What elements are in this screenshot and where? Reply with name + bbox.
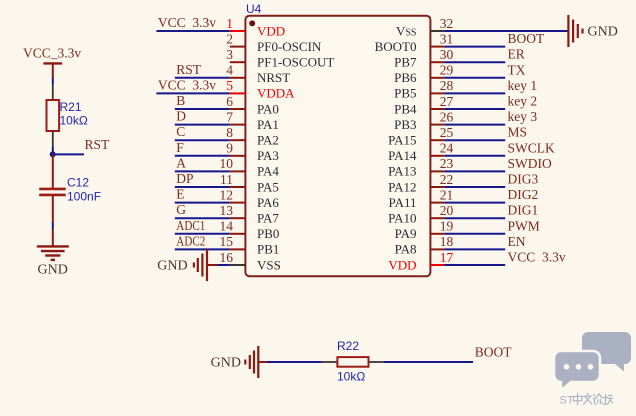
svg-text:24: 24 bbox=[440, 141, 454, 156]
svg-text:VCC_3.3v: VCC_3.3v bbox=[23, 46, 81, 61]
resistor R21 bbox=[47, 100, 88, 131]
wire net TX pin 29 bbox=[444, 62, 525, 78]
wire C12 to GND bbox=[52, 196, 54, 246]
svg-text:1: 1 bbox=[226, 16, 233, 31]
svg-text:TX: TX bbox=[508, 62, 526, 77]
svg-text:PA4: PA4 bbox=[257, 164, 279, 179]
capacitor C12 bbox=[39, 176, 101, 204]
svg-text:R22: R22 bbox=[337, 339, 359, 353]
svg-text:MS: MS bbox=[508, 125, 528, 140]
wire net key 2 pin 27 bbox=[444, 94, 537, 110]
svg-text:VCC 3.3v: VCC 3.3v bbox=[508, 250, 566, 265]
pin 23 (PA13) right stub + number bbox=[388, 156, 453, 179]
wire GND to pin 16 bbox=[207, 264, 230, 266]
pin 25 (PA15) right stub + number bbox=[388, 125, 453, 148]
svg-text:14: 14 bbox=[220, 219, 234, 234]
svg-text:PB3: PB3 bbox=[394, 117, 416, 132]
svg-text:PA11: PA11 bbox=[389, 195, 417, 210]
pin 11 (PA5) left stub + number bbox=[220, 172, 279, 195]
wire net PWM pin 19 bbox=[444, 218, 539, 234]
svg-text:29: 29 bbox=[440, 63, 454, 78]
svg-text:BOOT: BOOT bbox=[475, 345, 513, 360]
pin 10 (PA4) left stub + number bbox=[220, 156, 280, 179]
pin 18 (PA8) right stub + number bbox=[395, 234, 454, 257]
svg-text:key 1: key 1 bbox=[508, 78, 538, 93]
svg-text:DIG1: DIG1 bbox=[508, 203, 539, 218]
svg-text:PF0-OSCIN: PF0-OSCIN bbox=[257, 39, 322, 54]
svg-text:PB7: PB7 bbox=[394, 55, 417, 70]
svg-text:D: D bbox=[176, 109, 186, 124]
svg-text:B: B bbox=[176, 93, 185, 108]
svg-text:DP: DP bbox=[176, 171, 193, 186]
svg-text:key 2: key 2 bbox=[508, 94, 538, 109]
pin 27 (PB4) right stub + number bbox=[394, 94, 453, 117]
ground GND top right bbox=[568, 15, 617, 47]
pin 22 (PA12) right stub + number bbox=[388, 172, 453, 195]
svg-text:ER: ER bbox=[508, 47, 525, 62]
pin 26 (PB3) right stub + number bbox=[394, 109, 453, 131]
wire R22 to BOOT bbox=[369, 345, 513, 363]
wire net B pin 6 bbox=[175, 93, 230, 109]
svg-text:SWCLK: SWCLK bbox=[508, 140, 556, 155]
svg-text:13: 13 bbox=[220, 203, 234, 218]
wire net SWCLK pin 24 bbox=[444, 140, 555, 156]
svg-text:15: 15 bbox=[220, 234, 234, 249]
pin 12 (PA6) left stub + number bbox=[220, 187, 280, 210]
node RST junction bbox=[50, 151, 56, 157]
svg-text:DIG3: DIG3 bbox=[508, 172, 539, 187]
pin 19 (PA9) right stub + number bbox=[395, 219, 454, 242]
wire net MS pin 25 bbox=[444, 125, 527, 141]
svg-text:C: C bbox=[176, 124, 185, 139]
svg-text:100nF: 100nF bbox=[67, 190, 101, 204]
svg-text:G: G bbox=[176, 202, 186, 217]
wire junction to C12 bbox=[52, 154, 54, 188]
svg-text:VCC 3.3v: VCC 3.3v bbox=[158, 15, 216, 30]
svg-text:10: 10 bbox=[220, 156, 234, 171]
svg-text:32: 32 bbox=[440, 16, 454, 31]
svg-text:3: 3 bbox=[226, 47, 233, 62]
svg-text:10kΩ: 10kΩ bbox=[60, 114, 88, 128]
logo watermark ST forum bbox=[554, 332, 631, 407]
svg-text:PA5: PA5 bbox=[257, 179, 279, 194]
wire net key 1 pin 28 bbox=[444, 78, 537, 94]
svg-text:19: 19 bbox=[440, 219, 454, 234]
wire net key 3 pin 26 bbox=[444, 109, 537, 125]
svg-text:PA1: PA1 bbox=[257, 117, 279, 132]
wire power bar to R21 bbox=[52, 78, 54, 101]
power port VCC_3.3v bbox=[23, 46, 81, 78]
svg-text:PF1-OSCOUT: PF1-OSCOUT bbox=[257, 55, 334, 70]
wire net A pin 10 bbox=[175, 155, 230, 171]
wire net ADC1 pin 14 bbox=[175, 218, 230, 234]
wire GND to R22 bbox=[258, 361, 337, 363]
svg-text:GND: GND bbox=[588, 25, 618, 40]
pin 8 (PA2) left stub + number bbox=[226, 125, 279, 148]
svg-text:PB0: PB0 bbox=[257, 226, 279, 241]
svg-text:26: 26 bbox=[440, 109, 454, 124]
svg-text:31: 31 bbox=[440, 31, 454, 46]
wire net DIG1 pin 20 bbox=[444, 203, 538, 219]
wire net VCC 3.3v pin 5 bbox=[156, 77, 229, 93]
pin 9 (PA3) left stub + number bbox=[226, 141, 279, 164]
svg-text:NRST: NRST bbox=[257, 70, 290, 85]
svg-text:SWDIO: SWDIO bbox=[508, 156, 552, 171]
pin 20 (PA10) right stub + number bbox=[388, 203, 453, 226]
pin 2 (PF0-OSCIN) left stub + number bbox=[226, 31, 322, 54]
pin 13 (PA7) left stub + number bbox=[220, 203, 280, 226]
svg-text:PA10: PA10 bbox=[388, 211, 416, 226]
svg-text:PB4: PB4 bbox=[394, 101, 417, 116]
pin 30 (PB7) right stub + number bbox=[394, 47, 453, 70]
svg-text:PA8: PA8 bbox=[395, 242, 417, 257]
svg-text:16: 16 bbox=[220, 250, 234, 265]
svg-text:10kΩ: 10kΩ bbox=[337, 370, 365, 384]
wire net VCC 3.3v pin 1 bbox=[156, 15, 229, 31]
pin 1 marker dot bbox=[249, 20, 255, 26]
pin 6 (PA0) left stub + number bbox=[226, 94, 279, 117]
wire net SWDIO pin 23 bbox=[444, 156, 552, 172]
svg-text:PA6: PA6 bbox=[257, 195, 279, 210]
wire net ADC2 pin 15 bbox=[175, 233, 230, 249]
designator U4 bbox=[246, 2, 262, 16]
wire net F pin 9 bbox=[175, 140, 230, 156]
pin 21 (PA11) right stub + number bbox=[389, 187, 454, 210]
wire net ER pin 30 bbox=[444, 47, 524, 63]
svg-text:PA14: PA14 bbox=[388, 148, 417, 163]
pin 3 (PF1-OSCOUT) left stub + number bbox=[226, 47, 334, 70]
wire net D pin 7 bbox=[175, 109, 230, 125]
svg-text:F: F bbox=[176, 140, 184, 155]
svg-text:key 3: key 3 bbox=[508, 109, 538, 124]
svg-text:PA13: PA13 bbox=[388, 164, 416, 179]
svg-text:PA7: PA7 bbox=[257, 211, 279, 226]
wire pin 32 to GND bbox=[444, 30, 568, 32]
resistor R22 bbox=[337, 339, 369, 384]
svg-text:PA12: PA12 bbox=[388, 179, 416, 194]
svg-text:PB6: PB6 bbox=[394, 70, 417, 85]
svg-text:A: A bbox=[176, 155, 186, 170]
svg-text:23: 23 bbox=[440, 156, 454, 171]
svg-text:DIG2: DIG2 bbox=[508, 187, 539, 202]
svg-text:28: 28 bbox=[440, 78, 454, 93]
pin 32 (Vss) right stub + number bbox=[396, 16, 453, 39]
svg-text:BOOT: BOOT bbox=[508, 31, 546, 46]
svg-text:PWM: PWM bbox=[508, 218, 540, 233]
wire R21 to junction bbox=[52, 131, 54, 154]
svg-text:PA3: PA3 bbox=[257, 148, 279, 163]
svg-text:6: 6 bbox=[226, 94, 233, 109]
op-amp/mcu U4 body bbox=[245, 16, 430, 277]
wire RST bbox=[53, 137, 110, 154]
wire net VCC 3.3v pin 17 bbox=[444, 250, 565, 266]
svg-text:R21: R21 bbox=[60, 100, 82, 114]
svg-text:4: 4 bbox=[226, 63, 233, 78]
svg-text:20: 20 bbox=[440, 203, 454, 218]
svg-text:VDD: VDD bbox=[257, 23, 285, 38]
svg-text:BOOT0: BOOT0 bbox=[375, 39, 417, 54]
pin 14 (PB0) left stub + number bbox=[220, 219, 280, 242]
wire net G pin 13 bbox=[175, 202, 230, 218]
svg-text:EN: EN bbox=[508, 234, 526, 249]
wire net DP pin 11 bbox=[175, 171, 230, 187]
svg-text:7: 7 bbox=[226, 109, 233, 124]
wire net DIG3 pin 22 bbox=[444, 172, 538, 188]
svg-text:GND: GND bbox=[157, 259, 187, 274]
svg-text:9: 9 bbox=[226, 141, 233, 156]
svg-text:PA0: PA0 bbox=[257, 101, 279, 116]
wire net EN pin 18 bbox=[444, 234, 525, 250]
svg-text:5: 5 bbox=[226, 78, 233, 93]
ground GND at pin 16 bbox=[157, 249, 207, 281]
pin 31 (BOOT0) right stub + number bbox=[375, 31, 454, 54]
pin 7 (PA1) left stub + number bbox=[226, 109, 279, 131]
svg-text:17: 17 bbox=[440, 250, 454, 265]
svg-text:18: 18 bbox=[440, 234, 454, 249]
svg-text:ST: ST bbox=[560, 395, 574, 407]
svg-text:C12: C12 bbox=[67, 176, 89, 190]
svg-text:27: 27 bbox=[440, 94, 454, 109]
svg-text:11: 11 bbox=[220, 172, 233, 187]
svg-text:PA15: PA15 bbox=[388, 133, 416, 148]
pin 28 (PB5) right stub + number bbox=[394, 78, 453, 101]
svg-text:2: 2 bbox=[226, 31, 233, 46]
svg-text:ADC2: ADC2 bbox=[176, 233, 205, 248]
wire net RST pin 4 bbox=[175, 62, 230, 78]
wire net E pin 12 bbox=[175, 187, 230, 203]
svg-text:PB5: PB5 bbox=[394, 86, 416, 101]
svg-text:RST: RST bbox=[85, 137, 111, 152]
wire net C pin 8 bbox=[175, 124, 230, 140]
svg-text:E: E bbox=[176, 187, 184, 202]
svg-text:VDD: VDD bbox=[388, 257, 416, 272]
svg-text:21: 21 bbox=[440, 187, 454, 202]
pin 29 (PB6) right stub + number bbox=[394, 63, 453, 86]
svg-text:30: 30 bbox=[440, 47, 454, 62]
pin 5 (VDDA) left stub + number bbox=[226, 78, 295, 101]
svg-text:GND: GND bbox=[211, 356, 241, 371]
svg-text:25: 25 bbox=[440, 125, 454, 140]
svg-text:8: 8 bbox=[226, 125, 233, 140]
wire net DIG2 pin 21 bbox=[444, 187, 538, 203]
pin 1 (VDD) left stub + number bbox=[226, 16, 285, 39]
pin 16 (VSS) left stub + number bbox=[220, 250, 281, 273]
svg-text:U4: U4 bbox=[246, 2, 262, 16]
svg-text:VSS: VSS bbox=[257, 257, 281, 272]
ground GND bottom bbox=[211, 346, 259, 378]
svg-text:VCC 3.3v: VCC 3.3v bbox=[158, 77, 216, 92]
svg-text:12: 12 bbox=[220, 187, 234, 202]
svg-text:RST: RST bbox=[176, 62, 202, 77]
svg-text:PA9: PA9 bbox=[395, 226, 417, 241]
svg-text:PA2: PA2 bbox=[257, 133, 279, 148]
pin 15 (PB1) left stub + number bbox=[220, 234, 280, 257]
pin 24 (PA14) right stub + number bbox=[388, 141, 453, 164]
pin 17 (VDD) right stub + number bbox=[388, 250, 453, 273]
svg-text:GND: GND bbox=[38, 263, 68, 278]
svg-text:22: 22 bbox=[440, 172, 454, 187]
pin 4 (NRST) left stub + number bbox=[226, 63, 290, 86]
ground GND (left rail) bbox=[37, 246, 69, 277]
svg-text:ADC1: ADC1 bbox=[176, 218, 205, 233]
svg-text:PB1: PB1 bbox=[257, 242, 279, 257]
svg-text:VDDA: VDDA bbox=[257, 86, 295, 101]
wire net BOOT pin 31 bbox=[444, 31, 545, 47]
